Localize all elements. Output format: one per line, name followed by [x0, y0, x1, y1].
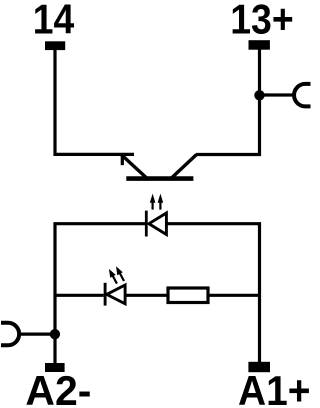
svg-text:A1+: A1+: [238, 368, 310, 408]
wire: terminal 14 down and left collector rail: [55, 49, 134, 154]
LED D1 (optocoupler emitter) cathode bar: [145, 211, 148, 237]
transistor Q1 emitter arrowhead barb (downward stroke): [121, 155, 124, 166]
LED D2 (indicator) cathode bar: [104, 283, 107, 306]
LED D2 triangle: [107, 285, 125, 304]
LED D2 emission arrow left: [112, 274, 117, 284]
svg-text:14: 14: [33, 0, 75, 43]
transistor Q1 collector diagonal: [172, 155, 197, 179]
optocoupler light arrow right: [159, 202, 161, 210]
optocoupler light arrow left: [152, 202, 154, 210]
LED D2 emission arrow right: [119, 271, 124, 281]
terminal block 13+: [249, 40, 270, 50]
transistor Q1 emitter diagonal (shaft of open arrow): [121, 154, 147, 178]
right plug-in connector symbol: [294, 84, 310, 107]
wire: terminal 13+ down and right rail to transistor: [196, 48, 260, 155]
terminal block A1+: [248, 362, 270, 372]
resistor R1: [168, 288, 208, 303]
svg-text:A2-: A2-: [25, 368, 91, 408]
svg-text:13+: 13+: [230, 0, 293, 43]
LED D1 triangle: [149, 213, 167, 235]
wire: middle branch left segment: [55, 294, 104, 297]
left plug-in connector symbol: [1, 323, 19, 346]
wire: middle branch between LED and resistor: [127, 294, 167, 297]
node: junction dot on A2 line: [50, 329, 60, 339]
wire: input loop top-left and left rail down: [55, 224, 145, 363]
wire: input loop top-right and right rail down: [166, 224, 259, 362]
node: junction dot on 13+ line: [254, 90, 264, 100]
wire: middle branch right segment: [210, 294, 260, 297]
wire: left plug connector to A2 rail: [19, 333, 55, 336]
wire: junction to right plug connector: [260, 93, 296, 96]
terminal block A2-: [45, 363, 65, 372]
transistor Q1 base bar: [126, 176, 193, 181]
terminal block 14: [45, 41, 65, 50]
